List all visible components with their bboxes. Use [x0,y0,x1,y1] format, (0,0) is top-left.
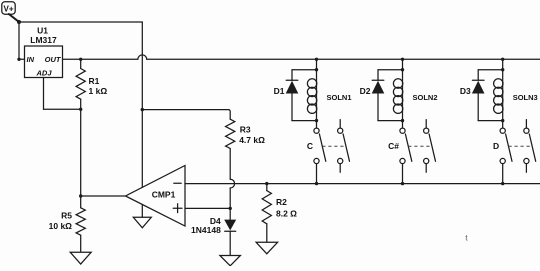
wire R1 bottom down [80,109,82,196]
svg-text:C: C [307,141,313,151]
diode D3 [472,70,485,121]
switch D [500,120,536,173]
junction SOLN1 top bar [315,68,318,71]
resistor R3 [226,119,235,179]
junction SOLN2 top bar [401,68,404,71]
resistor R2 [262,184,271,242]
wire D3 bottom bar [478,120,503,122]
svg-text:4.7 kΩ: 4.7 kΩ [239,135,265,145]
junction SOLN2 bottom [401,119,404,122]
svg-text:C#: C# [388,141,399,151]
junction V+ node [17,20,21,24]
label R1 value [89,76,108,96]
svg-text:R3: R3 [240,125,251,135]
junction C# bus [401,182,404,185]
junction D bus [501,182,504,185]
wire plus input [185,207,230,209]
wire D1 top bar [292,69,317,71]
svg-text:SOLN2: SOLN2 [413,93,438,102]
diode D4 1N4148 [224,208,236,255]
wire hop over minus wire [230,179,234,188]
wire SOLN2 drop [402,59,404,69]
label R2 value [276,197,297,219]
svg-text:V+: V+ [3,5,13,14]
ground D4 [220,256,241,266]
svg-text:IN: IN [27,55,35,64]
diode D1 [286,70,299,121]
wire V+ stub [9,14,19,22]
wire D2 top bar [378,69,403,71]
junction R2 top [265,182,268,185]
svg-text:OUT: OUT [45,55,62,64]
wire D1 bottom bar [292,120,317,122]
svg-text:D3: D3 [460,86,471,96]
wire C# pole to bus [402,164,404,184]
svg-text:D: D [493,141,499,151]
label R5 value [49,211,73,232]
wire IN pin [19,58,25,60]
wire V+ top rail [19,21,142,23]
inductor SOLN2 [393,70,402,128]
junction plus node [229,207,232,210]
wire D pole to bus [502,164,504,184]
resistor R1 [76,59,85,109]
wire ADJ [44,78,81,110]
switch C [314,120,350,173]
switch C# [400,120,436,173]
wire R3 to plus node [229,188,231,208]
regulator U1 LM317 [25,26,63,78]
svg-text:LM317: LM317 [30,35,57,45]
svg-text:D2: D2 [360,86,371,96]
svg-text:R2: R2 [276,197,287,207]
resistor R5 [76,196,85,252]
svg-text:SOLN3: SOLN3 [513,93,538,102]
wire OUT rail [63,55,540,59]
svg-text:SOLN1: SOLN1 [327,93,352,102]
junction R3 tee [141,108,144,111]
wire D2 bottom bar [378,120,403,122]
ground CMP1 [133,205,151,228]
wire V+ vertical feed [141,22,143,187]
svg-text:R1: R1 [89,76,100,86]
op-amp CMP1 [126,166,186,227]
svg-text:1 kΩ: 1 kΩ [89,86,108,96]
junction C bus [315,182,318,185]
wire V+ down to IN [18,22,20,59]
label R3 value [239,125,265,145]
svg-text:D1: D1 [274,86,285,96]
svg-text:R5: R5 [61,211,72,221]
svg-text:10 kΩ: 10 kΩ [49,221,73,231]
ground R2 [256,242,278,254]
wire SOLN3 drop [502,59,504,69]
junction SOLN3 bottom [501,119,504,122]
label D4 value [191,216,221,235]
junction SOLN1 rail [315,58,318,61]
ground R5 [70,252,91,264]
wire D3 top bar [478,69,503,71]
junction R1 top [79,58,82,61]
wire minus input bus [185,183,540,185]
junction ADJ/R1 [79,108,82,111]
junction IN pin [17,58,20,61]
svg-text:CMP1: CMP1 [152,190,176,200]
wire R3 branch [142,110,230,120]
junction SOLN3 rail [501,58,504,61]
junction SOLN1 bottom [315,119,318,122]
inductor SOLN3 [494,70,503,128]
svg-text:8.2 Ω: 8.2 Ω [276,208,297,218]
wire CMP1 output [81,195,126,197]
junction CMP1 output/R5 [79,194,82,197]
inductor SOLN1 [307,70,316,128]
wire SOLN1 drop [316,59,318,69]
diode D2 [372,70,385,121]
power flag V+ [2,2,15,14]
svg-text:1N4148: 1N4148 [191,225,221,235]
wire C pole to bus [316,164,318,184]
svg-text:ADJ: ADJ [35,68,52,77]
junction SOLN3 top bar [501,68,504,71]
junction SOLN2 rail [401,58,404,61]
